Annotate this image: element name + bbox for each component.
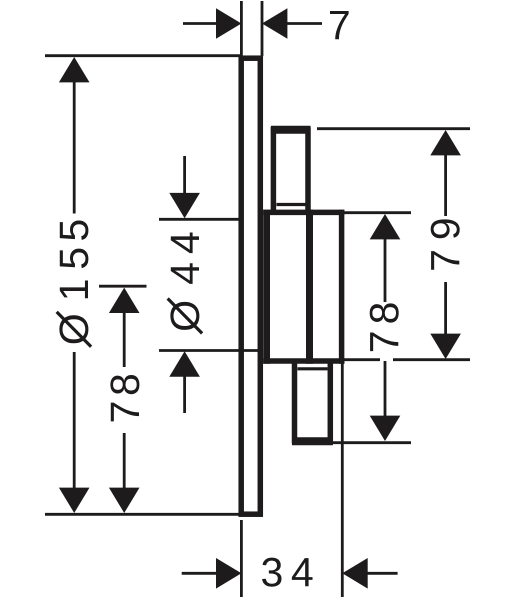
dim78left center mark <box>99 285 147 288</box>
dim78left text (rotated) <box>110 375 139 421</box>
dim155 text (rotated) <box>56 220 93 347</box>
top knob left side <box>271 127 277 212</box>
dim78right extension line bottom <box>332 441 411 444</box>
dim78left line lower segment <box>123 433 126 490</box>
top knob right side <box>305 127 311 212</box>
dim34 line right tail <box>366 572 398 575</box>
dim7 text <box>330 11 349 39</box>
dim34 extension line right <box>341 362 344 597</box>
dim155 extension line top <box>45 54 240 57</box>
bottom knob right side <box>328 361 334 444</box>
dim79 text (rotated) <box>431 219 460 269</box>
dim78right line lower segment <box>384 361 387 416</box>
dim79 line lower segment <box>444 282 447 336</box>
divider line (sleeve front edge) <box>306 210 313 364</box>
dim155 line upper segment <box>73 80 76 214</box>
dim44 line lower tail <box>183 375 186 413</box>
dim79 extension line bottom right part <box>393 358 470 361</box>
dim44 text (rotated) <box>167 232 204 334</box>
dim34 text <box>262 558 312 587</box>
top knob top edge <box>271 126 311 134</box>
dim44 line upper tail <box>183 156 186 195</box>
dim78right line upper segment <box>384 238 387 302</box>
dim79 extension line bottom left part <box>344 358 380 361</box>
dim44 extension line top <box>159 218 240 221</box>
bottom knob bottom edge <box>292 437 333 445</box>
dim78left line upper segment <box>123 310 126 367</box>
dim79 arrow down <box>430 334 461 359</box>
bottom knob left side <box>292 361 298 444</box>
dim34 extension line left <box>240 520 243 597</box>
dim44 extension line bottom <box>159 349 261 352</box>
dim7 arrow right (points left) <box>262 8 287 39</box>
dim79 line upper segment <box>444 154 447 216</box>
dim7 line right tail <box>286 22 322 25</box>
dim79 arrow up <box>430 130 461 155</box>
dim34 line left tail <box>182 572 218 575</box>
central block left edge <box>263 210 270 364</box>
dim155 extension line bottom <box>45 513 240 516</box>
central block bottom edge <box>263 358 344 364</box>
dim78right text (rotated) <box>370 303 399 351</box>
dim78right extension line top <box>344 211 411 214</box>
dim78right arrow down <box>370 416 401 441</box>
dim34 arrow left (points left) <box>216 558 241 589</box>
dim155 arrow up <box>59 57 90 82</box>
dim7 arrow left (points right) <box>216 8 241 39</box>
dim7 extension line right <box>261 1 264 56</box>
dim44 arrow down (outside, points to top line) <box>169 193 200 218</box>
central block right edge <box>339 210 345 364</box>
dim78right arrow up <box>370 214 401 239</box>
dim78left arrow down <box>109 488 140 513</box>
dim44 arrow up (outside, points to bottom line) <box>169 351 200 376</box>
dim78left arrow up <box>109 288 140 313</box>
plate (escutcheon, side view) <box>241 58 260 514</box>
bottom knob collar line <box>298 367 328 370</box>
dim155 arrow down <box>59 488 90 513</box>
dim79 extension line top <box>317 127 470 130</box>
dim7 extension line left <box>240 1 243 56</box>
top knob collar line <box>277 203 307 206</box>
dim7 line left tail <box>183 22 218 25</box>
dim34 arrow right (points right) <box>342 558 367 589</box>
dim155 line lower segment <box>73 352 76 490</box>
central block top edge <box>263 210 344 216</box>
